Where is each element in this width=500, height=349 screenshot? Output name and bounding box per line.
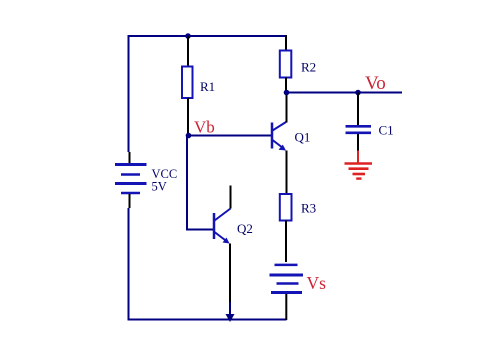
resistor R3 xyxy=(280,194,292,221)
transistor Q1 xyxy=(272,122,286,149)
wire Vs bottom pin xyxy=(285,294,287,320)
node Vb junction dot xyxy=(186,133,192,139)
capacitor C1 xyxy=(346,126,372,133)
wire Q1 collector stub xyxy=(286,93,288,123)
wire top rail xyxy=(128,35,286,37)
wire R1 top pin xyxy=(187,36,189,67)
wire C1 top pin xyxy=(357,93,359,127)
svg-text:C1: C1 xyxy=(379,123,394,138)
svg-text:R3: R3 xyxy=(301,201,316,216)
wire Vb to Q1 base xyxy=(188,135,272,137)
wire Vb down to Q2 xyxy=(186,136,188,230)
wire Q1 emitter / R3 top pin xyxy=(286,151,288,195)
wire Q2 base horizontal xyxy=(186,229,213,231)
wire VCC bottom pin xyxy=(129,194,131,208)
wire R2 top pin xyxy=(285,35,287,51)
svg-text:5V: 5V xyxy=(152,180,167,194)
wire Q2 collector stub xyxy=(230,186,232,209)
ground xyxy=(345,164,373,179)
svg-text:Vb: Vb xyxy=(194,118,215,137)
svg-text:R2: R2 xyxy=(301,60,316,75)
svg-text:R1: R1 xyxy=(200,79,215,94)
wire Q2 emitter to bottom rail xyxy=(229,302,231,314)
wire R2 bottom pin xyxy=(285,78,287,94)
battery VCC xyxy=(115,165,147,194)
wire to ground (red) xyxy=(357,151,359,163)
wire Vo output xyxy=(286,92,402,94)
wire R1 bottom pin xyxy=(187,98,189,136)
wire left rail lower xyxy=(128,208,130,320)
wire R3 bottom pin xyxy=(285,221,287,263)
svg-text:Q1: Q1 xyxy=(295,130,311,145)
svg-text:Vo: Vo xyxy=(365,73,386,94)
wire bottom rail xyxy=(128,319,287,321)
svg-text:Q2: Q2 xyxy=(237,221,253,236)
wire left rail upper xyxy=(128,35,130,152)
transistor Q2 xyxy=(214,209,231,242)
resistor R1 xyxy=(182,67,193,99)
node junction top (R1 tap) xyxy=(185,33,191,39)
wire Q2 emitter down xyxy=(229,244,231,305)
resistor R2 xyxy=(280,51,292,78)
node arrow at bottom rail xyxy=(226,314,235,322)
node junction Q1 collector / R2 xyxy=(284,90,290,96)
node junction C1 tap xyxy=(355,90,361,96)
wire VCC top pin xyxy=(129,152,131,163)
battery Vs xyxy=(270,265,304,293)
wire C1 bottom pin xyxy=(357,134,359,151)
svg-text:Vs: Vs xyxy=(307,273,327,293)
